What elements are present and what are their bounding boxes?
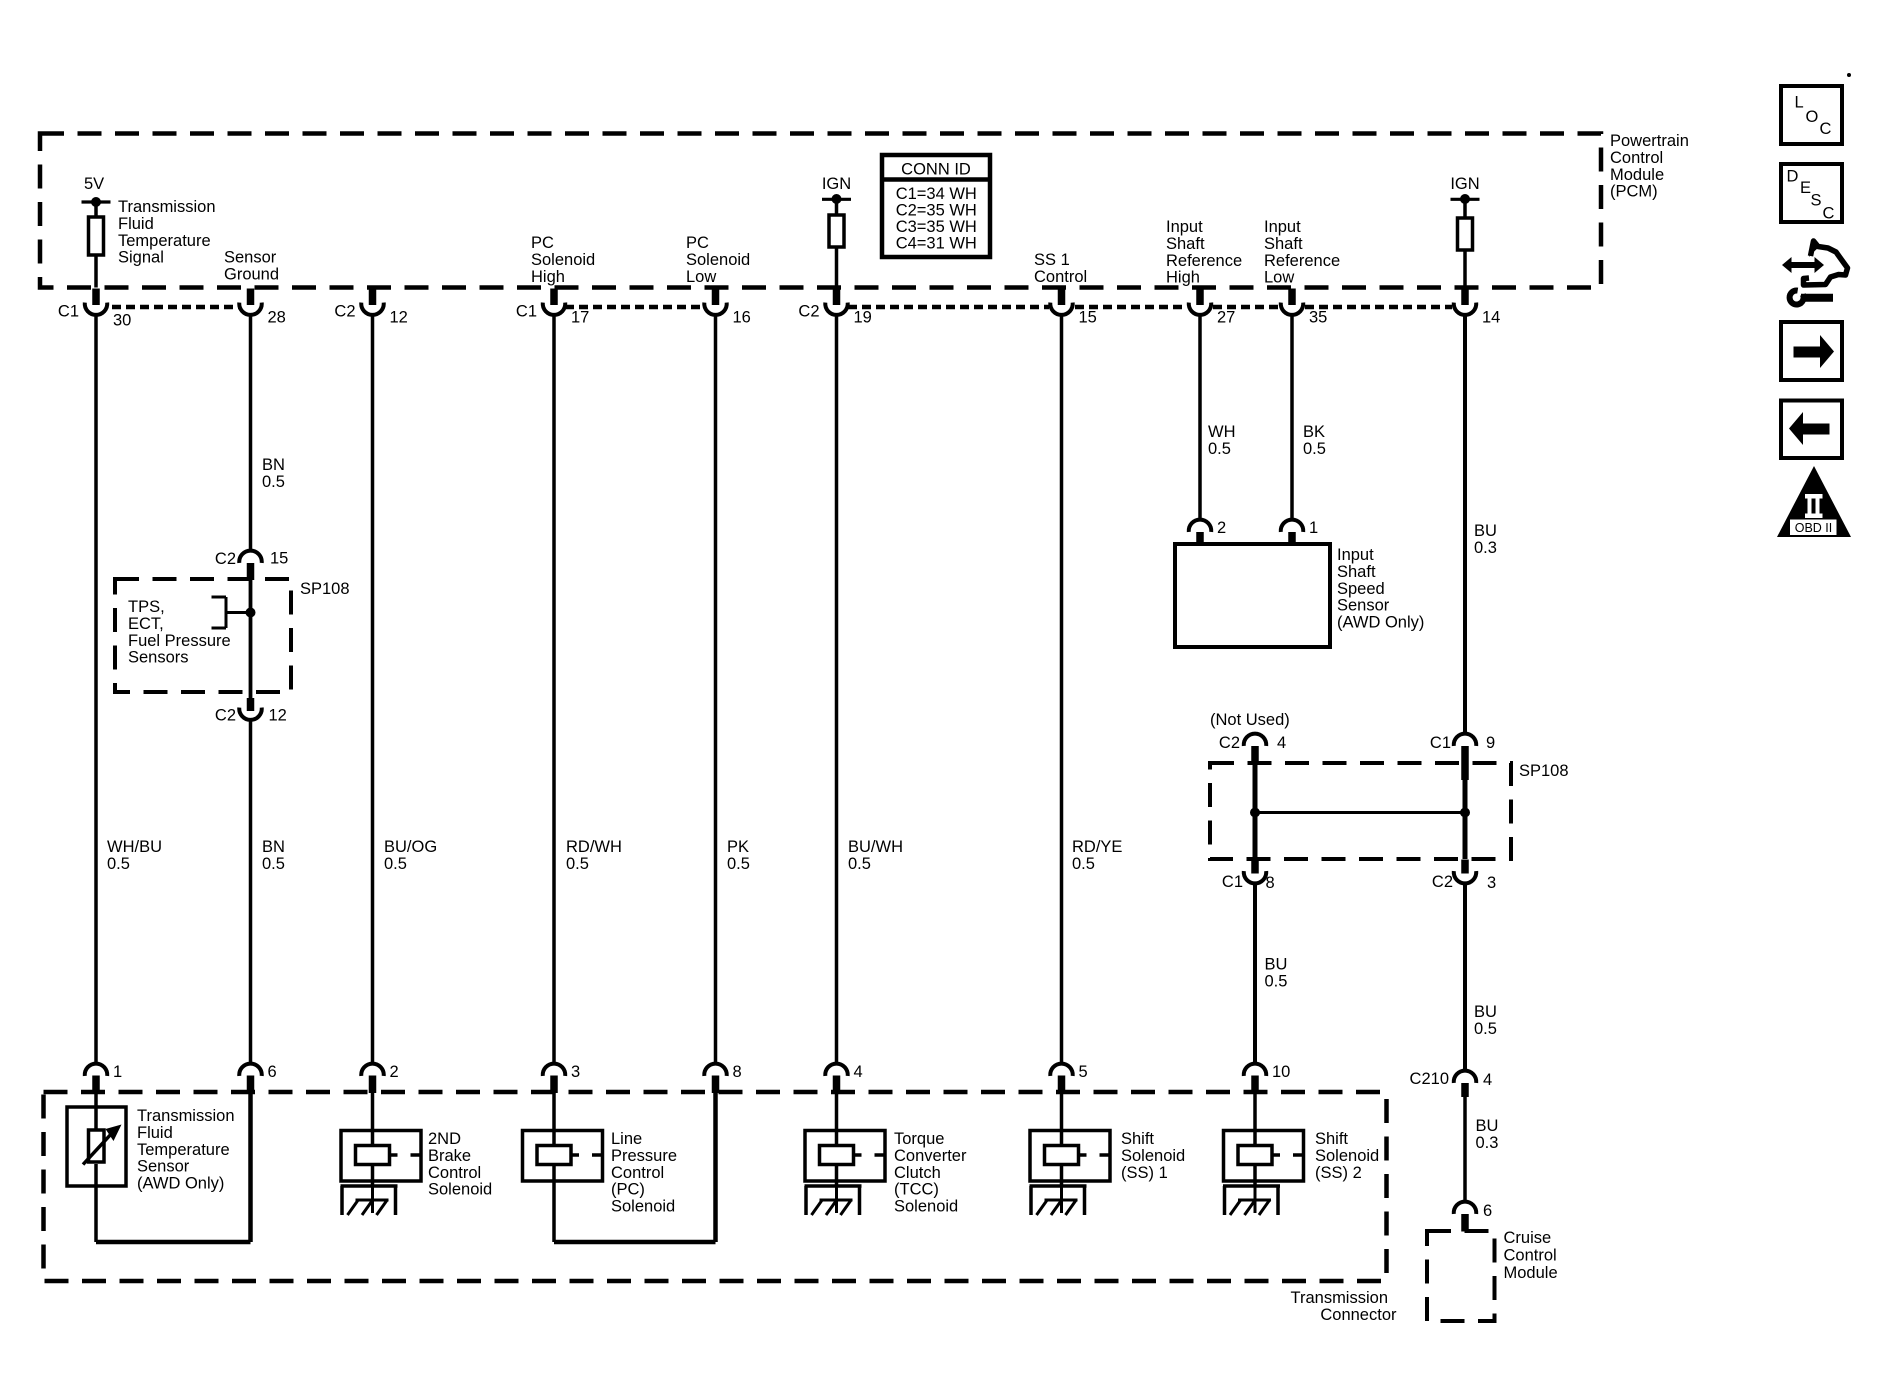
icon wrench bbox=[1790, 291, 1804, 305]
svg-text:ECT,: ECT, bbox=[128, 615, 164, 633]
icon double arrow bbox=[1782, 257, 1824, 273]
svg-text:OBD II: OBD II bbox=[1795, 521, 1833, 535]
ground (case) bbox=[805, 1184, 862, 1188]
label Sensor Ground bbox=[224, 249, 279, 284]
connector cruise pin 6 bbox=[1454, 1202, 1477, 1214]
svg-text:Fuel Pressure: Fuel Pressure bbox=[128, 632, 231, 650]
svg-text:Shaft: Shaft bbox=[1264, 235, 1303, 253]
solenoid winding bbox=[552, 1092, 556, 1146]
5V supply node bbox=[84, 175, 104, 193]
svg-text:BU: BU bbox=[1476, 1117, 1499, 1135]
svg-text:Clutch: Clutch bbox=[894, 1164, 941, 1182]
svg-text:Input: Input bbox=[1166, 218, 1203, 236]
wire IGN to resistor bbox=[835, 199, 839, 216]
svg-text:E: E bbox=[1800, 179, 1811, 197]
connector ISS pin 2 bbox=[1189, 520, 1211, 532]
PCM module dashed box (Powertrain Control Module) bbox=[40, 134, 1601, 288]
svg-text:Reference: Reference bbox=[1264, 252, 1340, 270]
wire TFT sensor return loop bbox=[94, 1164, 98, 1242]
svg-text:SS 1: SS 1 bbox=[1034, 251, 1070, 269]
wire PK pin16 to pin8 bbox=[714, 315, 718, 1063]
wire C1-9 through splice bbox=[1463, 763, 1468, 859]
transmission connector dashed box bbox=[44, 1092, 1387, 1281]
svg-text:Fluid: Fluid bbox=[137, 1124, 173, 1142]
label Shift Solenoid (SS) 2 bbox=[1315, 1130, 1379, 1182]
solenoid winding bbox=[371, 1092, 375, 1146]
svg-text:IGN: IGN bbox=[1450, 175, 1479, 193]
svg-text:Temperature: Temperature bbox=[118, 232, 211, 250]
svg-text:Solenoid: Solenoid bbox=[894, 1198, 958, 1216]
wire BK pin35 to ISS pin1 bbox=[1290, 315, 1294, 519]
svg-text:C1=34 WH: C1=34 WH bbox=[896, 185, 977, 203]
svg-text:(AWD Only): (AWD Only) bbox=[137, 1175, 224, 1193]
label Transmission Connector bbox=[1291, 1289, 1397, 1324]
svg-text:Solenoid: Solenoid bbox=[1121, 1147, 1185, 1165]
svg-text:Control: Control bbox=[611, 1164, 664, 1182]
svg-text:Speed: Speed bbox=[1337, 580, 1385, 598]
svg-text:(Not Used): (Not Used) bbox=[1210, 711, 1290, 729]
svg-text:C2: C2 bbox=[798, 303, 819, 321]
junction dot left bbox=[1250, 808, 1260, 818]
label 2ND Brake Control Solenoid bbox=[428, 1130, 492, 1199]
wire BU C210 to cruise module bbox=[1463, 1097, 1467, 1201]
PCM pin 14 bbox=[1461, 289, 1469, 306]
svg-text:Powertrain: Powertrain bbox=[1610, 132, 1689, 150]
svg-text:3: 3 bbox=[1487, 874, 1496, 892]
svg-text:Transmission: Transmission bbox=[1291, 1289, 1389, 1307]
wire label BU 0.5 (right) bbox=[1474, 1003, 1497, 1038]
solenoid winding bbox=[1060, 1092, 1064, 1146]
svg-text:Sensors: Sensors bbox=[128, 649, 189, 667]
svg-text:(PCM): (PCM) bbox=[1610, 183, 1658, 201]
wire RD/WH pin17 to pin3 bbox=[552, 315, 556, 1063]
svg-text:0.5: 0.5 bbox=[262, 473, 285, 491]
svg-text:C1: C1 bbox=[58, 303, 79, 321]
svg-text:SP108: SP108 bbox=[1519, 762, 1569, 780]
wire label WH/BU 0.5 bbox=[107, 838, 162, 873]
svg-text:8: 8 bbox=[733, 1063, 742, 1081]
svg-text:C2: C2 bbox=[1219, 734, 1240, 752]
PCM pin C2-19 bbox=[833, 289, 841, 306]
connector C2-12 out of SP108 bbox=[247, 698, 255, 711]
transmission pin 2 bbox=[361, 1064, 384, 1076]
connector C2-4 (not used) bbox=[1244, 734, 1266, 746]
svg-text:0.5: 0.5 bbox=[1072, 855, 1095, 873]
svg-text:Reference: Reference bbox=[1166, 252, 1242, 270]
label Input Shaft Reference High bbox=[1166, 218, 1242, 287]
solenoid winding bbox=[835, 1092, 839, 1146]
svg-text:BN: BN bbox=[262, 456, 285, 474]
svg-text:0.5: 0.5 bbox=[1208, 440, 1231, 458]
svg-text:Fluid: Fluid bbox=[118, 215, 154, 233]
TFT thermistor element bbox=[89, 1130, 105, 1162]
svg-text:C: C bbox=[1820, 120, 1832, 138]
label Input Shaft Reference Low bbox=[1264, 218, 1340, 287]
label Line Pressure Control (PC) Solenoid bbox=[611, 1130, 677, 1216]
svg-text:5V: 5V bbox=[84, 175, 104, 193]
svg-text:Line: Line bbox=[611, 1130, 642, 1148]
svg-text:Low: Low bbox=[686, 268, 716, 286]
svg-text:15: 15 bbox=[1079, 309, 1097, 327]
svg-text:(TCC): (TCC) bbox=[894, 1181, 939, 1199]
svg-text:C2: C2 bbox=[215, 707, 236, 725]
svg-text:0.5: 0.5 bbox=[848, 855, 871, 873]
svg-text:9: 9 bbox=[1486, 734, 1495, 752]
svg-text:PC: PC bbox=[531, 234, 554, 252]
speck dot bbox=[1847, 73, 1851, 77]
label SP108 (right) bbox=[1519, 762, 1569, 780]
wire label PK 0.5 bbox=[727, 838, 750, 873]
svg-text:Module: Module bbox=[1610, 166, 1664, 184]
svg-text:2: 2 bbox=[1217, 519, 1226, 537]
svg-text:Sensor: Sensor bbox=[1337, 597, 1390, 615]
svg-text:C2: C2 bbox=[215, 550, 236, 568]
svg-text:4: 4 bbox=[1483, 1071, 1492, 1089]
svg-text:C4=31 WH: C4=31 WH bbox=[896, 235, 977, 253]
svg-text:0.5: 0.5 bbox=[566, 855, 589, 873]
connector C2-15 into SP108 bbox=[239, 551, 261, 563]
svg-text:6: 6 bbox=[1483, 1202, 1492, 1220]
wire label BU 0.3 (upper) bbox=[1474, 522, 1497, 557]
connector C2-3 out of splice bbox=[1461, 860, 1469, 874]
wire label RD/YE 0.5 bbox=[1072, 838, 1122, 873]
svg-text:SP108: SP108 bbox=[300, 580, 350, 598]
label Torque Converter Clutch (TCC) Solenoid bbox=[894, 1130, 967, 1216]
label Shift Solenoid (SS) 1 bbox=[1121, 1130, 1185, 1182]
svg-text:19: 19 bbox=[854, 309, 872, 327]
svg-text:Sensor: Sensor bbox=[137, 1158, 190, 1176]
IGN supply node (TCC feed) bbox=[822, 175, 851, 193]
resistor TCC driver (PCM internal) bbox=[829, 215, 844, 247]
svg-text:Torque: Torque bbox=[894, 1130, 944, 1148]
connector face dotted line C2 segment bbox=[848, 305, 1049, 310]
solenoid coil box bbox=[1030, 1131, 1110, 1182]
PCM pin 28 bbox=[247, 289, 255, 306]
wire BU/WH pin19 to pin4 bbox=[835, 315, 839, 1063]
connector C1-9 bbox=[1454, 734, 1477, 746]
svg-text:35: 35 bbox=[1309, 309, 1327, 327]
svg-text:Input: Input bbox=[1337, 546, 1374, 564]
svg-text:High: High bbox=[1166, 269, 1200, 287]
svg-text:L: L bbox=[1795, 94, 1804, 112]
solenoid coil box bbox=[1224, 1131, 1304, 1182]
transmission pin 5 bbox=[1050, 1064, 1073, 1076]
wire BU/OG pin12 to pin2 bbox=[371, 315, 375, 1063]
label TPS ECT Fuel Pressure Sensors bbox=[128, 598, 231, 667]
svg-text:14: 14 bbox=[1482, 309, 1500, 327]
svg-text:(AWD Only): (AWD Only) bbox=[1337, 614, 1424, 632]
wire resistor to pin C2-19 bbox=[835, 247, 839, 288]
svg-text:BU: BU bbox=[1474, 1003, 1497, 1021]
svg-text:Transmission: Transmission bbox=[118, 198, 216, 216]
svg-text:BU/WH: BU/WH bbox=[848, 838, 903, 856]
solenoid coil box bbox=[805, 1131, 885, 1182]
svg-text:(PC): (PC) bbox=[611, 1181, 645, 1199]
wire PC solenoid return loop bbox=[552, 1181, 556, 1242]
sensor branch bracket bbox=[225, 597, 228, 628]
resistor solenoid driver (PCM internal) bbox=[1458, 218, 1473, 250]
svg-text:15: 15 bbox=[270, 550, 288, 568]
resistor TFT pull-up (PCM internal) bbox=[89, 217, 104, 255]
svg-text:Shift: Shift bbox=[1121, 1130, 1154, 1148]
svg-text:27: 27 bbox=[1217, 309, 1235, 327]
transmission pin 1 bbox=[85, 1064, 108, 1076]
svg-text:RD/YE: RD/YE bbox=[1072, 838, 1122, 856]
svg-text:Solenoid: Solenoid bbox=[1315, 1147, 1379, 1165]
PCM pin 16 bbox=[712, 289, 720, 306]
svg-text:BN: BN bbox=[262, 838, 285, 856]
wire WH pin27 to ISS pin2 bbox=[1198, 315, 1202, 519]
svg-text:Input: Input bbox=[1264, 218, 1301, 236]
wire IGN to resistor bbox=[1463, 199, 1467, 218]
connector C1-8 out of splice bbox=[1251, 860, 1259, 874]
svg-text:4: 4 bbox=[854, 1063, 863, 1081]
svg-text:C210: C210 bbox=[1410, 1070, 1449, 1088]
junction dot right bbox=[1460, 808, 1470, 818]
wire resistor to pin 14 bbox=[1463, 250, 1467, 288]
svg-text:Solenoid: Solenoid bbox=[611, 1198, 675, 1216]
svg-text:10: 10 bbox=[1272, 1063, 1290, 1081]
label SP108 (left) bbox=[300, 580, 350, 598]
splice jumper wire bbox=[1255, 811, 1465, 814]
wire BU C2-3 to C210 bbox=[1463, 884, 1467, 1070]
icon vehicle diagnostic (car outline) bbox=[1804, 241, 1848, 285]
label Transmission Fluid Temperature Sensor (AWD Only) bbox=[137, 1107, 235, 1193]
svg-text:0.5: 0.5 bbox=[1474, 1020, 1497, 1038]
PCM pin 27 bbox=[1196, 289, 1204, 306]
svg-text:28: 28 bbox=[268, 309, 286, 327]
svg-text:BU: BU bbox=[1474, 522, 1497, 540]
svg-text:0.5: 0.5 bbox=[107, 855, 130, 873]
wire label BK 0.5 bbox=[1303, 423, 1326, 458]
wire label RD/WH 0.5 bbox=[566, 838, 622, 873]
PCM pin C2-12 bbox=[369, 289, 377, 306]
wire label BU/OG 0.5 bbox=[384, 838, 437, 873]
ground (case) bbox=[1223, 1184, 1280, 1188]
transmission pin 4 bbox=[825, 1064, 848, 1076]
connector face dotted line C1 segment 2 bbox=[565, 305, 704, 310]
svg-text:Control: Control bbox=[1504, 1247, 1557, 1265]
icon forward arrow box bbox=[1781, 322, 1842, 380]
wire BN pin28 to splice SP108 bbox=[249, 315, 253, 550]
svg-text:Temperature: Temperature bbox=[137, 1141, 230, 1159]
svg-text:12: 12 bbox=[269, 707, 287, 725]
svg-text:Solenoid: Solenoid bbox=[531, 251, 595, 269]
svg-text:Brake: Brake bbox=[428, 1147, 471, 1165]
transmission pin 8 bbox=[704, 1064, 726, 1076]
icon back arrow box bbox=[1781, 401, 1842, 459]
cruise control module dashed box bbox=[1427, 1231, 1495, 1321]
svg-text:16: 16 bbox=[733, 309, 751, 327]
svg-text:1: 1 bbox=[1309, 519, 1318, 537]
svg-text:4: 4 bbox=[1277, 734, 1286, 752]
svg-text:1: 1 bbox=[113, 1063, 122, 1081]
splice SP108 dashed box (left) bbox=[115, 579, 291, 692]
svg-text:BK: BK bbox=[1303, 423, 1325, 441]
connector face dotted line C1 segment bbox=[112, 305, 240, 310]
PCM pin 35 bbox=[1288, 289, 1296, 306]
svg-text:Solenoid: Solenoid bbox=[686, 251, 750, 269]
svg-text:CONN ID: CONN ID bbox=[901, 160, 971, 178]
svg-text:0.5: 0.5 bbox=[262, 855, 285, 873]
PCM label bbox=[1610, 132, 1689, 201]
IGN supply node (solenoid feed) bbox=[1450, 175, 1479, 193]
solenoid winding bbox=[1253, 1092, 1257, 1146]
svg-text:C1: C1 bbox=[1222, 873, 1243, 891]
svg-text:Converter: Converter bbox=[894, 1147, 967, 1165]
svg-text:RD/WH: RD/WH bbox=[566, 838, 622, 856]
svg-text:Control: Control bbox=[1610, 149, 1663, 167]
svg-text:C3=35 WH: C3=35 WH bbox=[896, 218, 977, 236]
wire RD/YE pin15 to pin5 bbox=[1060, 315, 1064, 1063]
svg-text:C2: C2 bbox=[334, 303, 355, 321]
svg-text:3: 3 bbox=[571, 1063, 580, 1081]
wire BN pin C2-12 to pin6 bbox=[249, 720, 253, 1063]
svg-text:Shaft: Shaft bbox=[1337, 563, 1376, 581]
svg-text:PK: PK bbox=[727, 838, 749, 856]
svg-text:WH/BU: WH/BU bbox=[107, 838, 162, 856]
splice SP108 dashed box (right) bbox=[1210, 763, 1511, 859]
svg-text:Signal: Signal bbox=[118, 249, 164, 267]
wire label BU 0.5 (SS2) bbox=[1265, 956, 1288, 991]
svg-text:Ground: Ground bbox=[224, 266, 279, 284]
svg-text:BU: BU bbox=[1265, 956, 1288, 974]
wire C2-4 through splice bbox=[1253, 763, 1258, 859]
PCM pin C1-30 bbox=[92, 289, 100, 306]
PCM pin 15 bbox=[1058, 289, 1066, 306]
PCM pin C1-17 bbox=[550, 289, 558, 306]
label Input Shaft Speed Sensor (AWD Only) bbox=[1337, 546, 1424, 632]
svg-text:High: High bbox=[531, 268, 565, 286]
svg-text:Pressure: Pressure bbox=[611, 1147, 677, 1165]
label (Not Used) bbox=[1210, 711, 1290, 729]
svg-text:Cruise: Cruise bbox=[1504, 1229, 1552, 1247]
TFT variable arrow bbox=[83, 1133, 113, 1165]
svg-text:O: O bbox=[1806, 108, 1819, 126]
CONN ID table bbox=[882, 155, 990, 257]
wire label BU 0.3 (lower) bbox=[1476, 1117, 1499, 1152]
connector C210 pin 4 bbox=[1454, 1071, 1477, 1083]
connector face dotted line C2 segment 4 bbox=[1305, 305, 1452, 310]
label PC Solenoid High bbox=[531, 234, 595, 286]
svg-text:IGN: IGN bbox=[822, 175, 851, 193]
label Cruise Control Module bbox=[1504, 1229, 1558, 1282]
label SS 1 Control bbox=[1034, 251, 1087, 286]
svg-text:0.5: 0.5 bbox=[384, 855, 407, 873]
transmission pin 3 bbox=[543, 1064, 566, 1076]
icon LOC box bbox=[1781, 86, 1842, 144]
transmission pin 10 bbox=[1244, 1064, 1266, 1076]
wire 5V to resistor bbox=[94, 202, 98, 217]
wire BU pin14 to splice SP108 bbox=[1463, 315, 1467, 733]
svg-text:S: S bbox=[1811, 192, 1822, 210]
svg-text:D: D bbox=[1787, 168, 1799, 186]
svg-text:5: 5 bbox=[1079, 1063, 1088, 1081]
svg-text:17: 17 bbox=[571, 309, 589, 327]
solenoid coil box bbox=[341, 1131, 421, 1182]
label Transmission Fluid Temperature Signal bbox=[118, 198, 216, 267]
svg-text:Low: Low bbox=[1264, 269, 1294, 287]
svg-text:2ND: 2ND bbox=[428, 1130, 461, 1148]
svg-text:8: 8 bbox=[1266, 874, 1275, 892]
icon DESC box bbox=[1781, 164, 1842, 222]
svg-text:WH: WH bbox=[1208, 423, 1236, 441]
wire label BN 0.5 (lower) bbox=[262, 838, 285, 873]
label PC Solenoid Low bbox=[686, 234, 750, 286]
svg-text:TPS,: TPS, bbox=[128, 598, 165, 616]
wire WH/BU pin30 to pin1 bbox=[94, 315, 98, 1063]
svg-text:C1: C1 bbox=[1430, 734, 1451, 752]
svg-text:Shift: Shift bbox=[1315, 1130, 1348, 1148]
connector face dotted line C2 segment 3 bbox=[1213, 305, 1279, 310]
ground (case) bbox=[1030, 1184, 1087, 1188]
solenoid coil box bbox=[523, 1131, 603, 1182]
wire label WH 0.5 bbox=[1208, 423, 1236, 458]
svg-text:0.5: 0.5 bbox=[727, 855, 750, 873]
ground (case) bbox=[341, 1184, 398, 1188]
svg-text:C1: C1 bbox=[516, 303, 537, 321]
svg-text:0.3: 0.3 bbox=[1476, 1134, 1499, 1152]
svg-text:Module: Module bbox=[1504, 1264, 1558, 1282]
svg-text:(SS) 1: (SS) 1 bbox=[1121, 1164, 1168, 1182]
svg-text:6: 6 bbox=[268, 1063, 277, 1081]
svg-text:Shaft: Shaft bbox=[1166, 235, 1205, 253]
transmission pin 6 bbox=[239, 1064, 262, 1076]
wire label BN 0.5 (upper) bbox=[262, 456, 285, 491]
wire through splice SP108 bbox=[249, 579, 253, 700]
connector face dotted line C2 segment 2 bbox=[1075, 305, 1187, 310]
svg-text:Transmission: Transmission bbox=[137, 1107, 235, 1125]
svg-text:0.3: 0.3 bbox=[1474, 539, 1497, 557]
svg-text:C: C bbox=[1823, 205, 1835, 223]
svg-text:(SS) 2: (SS) 2 bbox=[1315, 1164, 1362, 1182]
svg-text:Control: Control bbox=[428, 1164, 481, 1182]
input shaft speed sensor box bbox=[1175, 544, 1330, 647]
svg-text:C2=35 WH: C2=35 WH bbox=[896, 202, 977, 220]
svg-text:Solenoid: Solenoid bbox=[428, 1181, 492, 1199]
icon OBD II triangle bbox=[1777, 466, 1851, 537]
wire pin1 into TFT sensor bbox=[94, 1092, 98, 1130]
svg-text:PC: PC bbox=[686, 234, 709, 252]
svg-text:0.5: 0.5 bbox=[1303, 440, 1326, 458]
svg-text:Sensor: Sensor bbox=[224, 249, 277, 267]
svg-text:2: 2 bbox=[390, 1063, 399, 1081]
wire label BU/WH 0.5 bbox=[848, 838, 903, 873]
wire resistor to pin C1-30 bbox=[94, 255, 98, 288]
svg-text:BU/OG: BU/OG bbox=[384, 838, 437, 856]
svg-text:30: 30 bbox=[113, 312, 131, 330]
svg-text:0.5: 0.5 bbox=[1265, 972, 1288, 990]
wire BU C1-8 to pin10 bbox=[1253, 884, 1257, 1063]
connector ISS pin 1 bbox=[1281, 520, 1303, 532]
transmission fluid temperature sensor box bbox=[67, 1107, 126, 1186]
svg-text:12: 12 bbox=[390, 309, 408, 327]
svg-text:C2: C2 bbox=[1432, 873, 1453, 891]
svg-text:Control: Control bbox=[1034, 268, 1087, 286]
junction dot SP108 bbox=[246, 608, 256, 618]
svg-text:Connector: Connector bbox=[1320, 1306, 1397, 1324]
